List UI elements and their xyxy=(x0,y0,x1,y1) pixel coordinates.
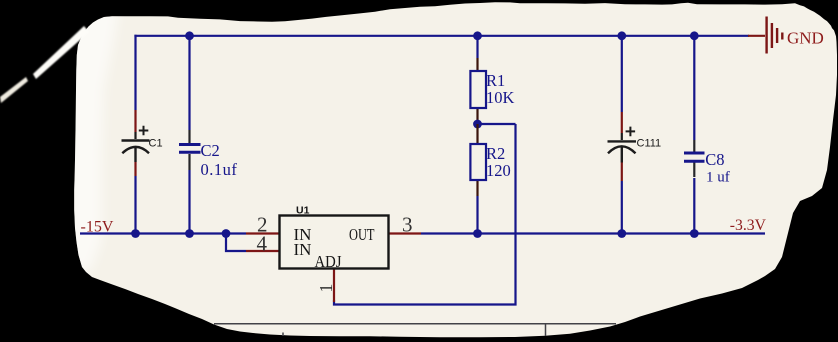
svg-text:-3.3V: -3.3V xyxy=(730,217,767,234)
resistor R2 120 xyxy=(470,124,510,196)
junction top rail / R1 xyxy=(473,31,482,40)
svg-text:1 uf: 1 uf xyxy=(706,170,730,186)
wire bottom rail left (-15V net) xyxy=(80,232,246,234)
svg-text:-15V: -15V xyxy=(81,219,114,236)
svg-text:U1: U1 xyxy=(296,205,310,217)
junction bottom rail / pin4 branch xyxy=(222,229,231,238)
capacitor C8 xyxy=(684,140,730,186)
wire C111 vertical lower xyxy=(621,181,623,234)
svg-text:1: 1 xyxy=(316,284,336,293)
junction OUT rail / C111 xyxy=(617,229,626,238)
pin 2 xyxy=(246,232,280,234)
ground GND xyxy=(748,17,824,54)
resistor R1 10K xyxy=(470,58,514,124)
wire C8 vertical lower xyxy=(693,178,695,234)
svg-text:IN: IN xyxy=(294,240,312,259)
svg-text:C8: C8 xyxy=(705,150,724,169)
svg-text:10K: 10K xyxy=(486,88,515,107)
junction bottom rail / C2 xyxy=(185,229,194,238)
svg-text:0.1uf: 0.1uf xyxy=(201,160,238,179)
svg-text:ADJ: ADJ xyxy=(315,252,342,271)
polarity + mark xyxy=(626,127,636,137)
wire pin4 branch xyxy=(226,234,246,252)
wire feedback loop to ADJ xyxy=(334,124,516,305)
capacitor C2 xyxy=(179,130,237,179)
wire R1 top xyxy=(476,36,478,58)
regulator U1 xyxy=(246,205,421,303)
pin 3 xyxy=(388,232,421,234)
junction bottom rail / C1 xyxy=(131,229,140,238)
svg-text:3: 3 xyxy=(402,213,413,237)
polarity + mark xyxy=(139,126,149,136)
svg-text:OUT: OUT xyxy=(349,225,375,244)
junction top rail / C111 xyxy=(617,31,626,40)
pin 4 xyxy=(246,250,280,252)
svg-text:4: 4 xyxy=(257,231,268,255)
svg-text:C111: C111 xyxy=(637,138,662,150)
svg-text:GND: GND xyxy=(787,29,824,48)
wire OUT rail (-3.3V net) xyxy=(421,232,765,234)
junction OUT rail / R2 xyxy=(473,229,482,238)
wire C2 vertical lower xyxy=(188,170,190,234)
pin 1 ADJ xyxy=(333,269,335,302)
wire top rail xyxy=(134,35,749,37)
wire left vertical (C1 branch upper) xyxy=(134,35,136,110)
junction top rail / C8 xyxy=(690,31,699,40)
svg-text:C2: C2 xyxy=(201,141,220,160)
capacitor C1 (polarized) xyxy=(122,110,163,176)
capacitor C111 (polarized) xyxy=(608,112,662,181)
wire left vertical (C1 branch lower) xyxy=(134,176,136,234)
U1 body xyxy=(280,216,389,269)
wire R1/R2 junction to feedback xyxy=(478,123,516,125)
svg-text:C1: C1 xyxy=(149,138,163,150)
wire C2 vertical upper xyxy=(188,36,190,130)
wire C8 vertical upper xyxy=(693,36,695,140)
svg-text:120: 120 xyxy=(486,161,511,180)
wire C111 vertical upper xyxy=(621,36,623,112)
wire R2 bottom xyxy=(476,196,478,234)
junction top rail / C2 xyxy=(185,31,194,40)
node R1/R2 junction xyxy=(473,120,482,129)
junction OUT rail / C8 xyxy=(690,229,699,238)
